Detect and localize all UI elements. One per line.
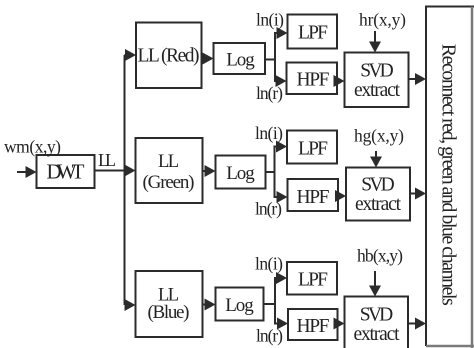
wire hb down <box>374 271 376 287</box>
svg-text:extract: extract <box>354 80 401 101</box>
svg-text:LL (Red): LL (Red) <box>138 46 200 67</box>
arrowhead into SVD3 from HPF3 <box>334 318 345 330</box>
wire split3 down to HPF <box>275 278 278 324</box>
wire LL (Red) to Log <box>202 58 205 60</box>
arrowhead into Log2 <box>205 165 216 177</box>
wire SVD1 to reconnect <box>409 78 417 80</box>
wire HPF3 to SVD <box>335 323 338 325</box>
svg-text:LPF: LPF <box>298 139 328 160</box>
wire branch to LL (Blue) <box>125 304 127 306</box>
svg-text:ln(r): ln(r) <box>256 326 283 346</box>
svg-text:HPF: HPF <box>297 70 330 91</box>
svg-text:ln(i): ln(i) <box>255 254 283 274</box>
wire Log1 to split <box>265 33 278 60</box>
box LPF row2 <box>287 131 337 164</box>
svg-text:extract: extract <box>354 324 401 345</box>
arrowhead SVD1 into reconnect <box>415 73 426 85</box>
box HPF row1 <box>287 63 338 95</box>
svg-text:LL: LL <box>158 152 179 172</box>
wire Log3 to split <box>264 278 278 304</box>
wire DWT to branch and LL (Green) <box>95 170 126 172</box>
box LL (Green) <box>136 138 203 203</box>
arrowhead SVD3 into reconnect <box>415 318 426 330</box>
arrowhead hg into SVD2 top <box>370 157 382 168</box>
box DWT <box>37 155 95 188</box>
arrowhead into SVD1 from HPF1 <box>334 75 345 87</box>
wire input to DWT <box>17 171 27 173</box>
arrowhead into HPF3 <box>277 318 288 330</box>
box LPF row3 <box>287 262 337 295</box>
svg-text:ln(r): ln(r) <box>255 199 282 219</box>
arrowhead into LL (Green) <box>125 165 136 177</box>
box Reconnect channels: bottom edge (gray, to image edge) <box>426 345 474 348</box>
arrowhead into HPF2 <box>277 191 288 203</box>
wire branch to LL (Red) <box>125 54 127 56</box>
box LL (Blue) <box>136 271 203 337</box>
box HPF row3 <box>288 309 338 340</box>
arrowhead hr into SVD1 top <box>369 42 381 53</box>
arrowhead into LPF2 <box>276 141 287 153</box>
svg-text:hb(x,y): hb(x,y) <box>357 246 403 266</box>
arrowhead into LPF3 <box>276 272 287 284</box>
svg-text:HPF: HPF <box>297 316 330 337</box>
arrowhead into Log3 <box>205 299 216 311</box>
wire split1 down to HPF <box>275 33 277 81</box>
wire HPF1 to SVD <box>335 80 337 82</box>
svg-text:extract: extract <box>355 194 402 215</box>
box Log row2 <box>216 156 266 189</box>
svg-text:SVD: SVD <box>360 61 394 82</box>
arrowhead SVD2 into reconnect <box>415 188 426 200</box>
svg-text:(Blue): (Blue) <box>148 302 190 323</box>
box Log row1 <box>214 43 266 74</box>
box Reconnect channels: right edge (gray, at image edge) <box>471 7 474 348</box>
wire split2 down to HPF <box>275 147 278 198</box>
svg-text:Log: Log <box>226 50 255 71</box>
svg-text:hr(x,y): hr(x,y) <box>359 10 406 30</box>
svg-text:Log: Log <box>226 163 255 184</box>
svg-text:SVD: SVD <box>360 305 394 326</box>
svg-text:DWT: DWT <box>47 160 85 184</box>
arrowhead hb into SVD3 top <box>369 286 381 297</box>
arrowhead into LPF1 <box>277 27 288 39</box>
box HPF row2 <box>288 179 339 211</box>
wire branch vertical <box>124 55 126 305</box>
wire hr down <box>374 31 376 43</box>
wire SVD2 to reconnect <box>410 193 416 195</box>
wire LL (Green) to Log <box>203 170 207 172</box>
arrowhead into LL (Blue) <box>125 299 136 311</box>
arrowhead into LL (Red) <box>125 49 136 61</box>
svg-text:Log: Log <box>225 295 254 316</box>
arrowhead into SVD2 from HPF2 <box>335 190 346 202</box>
svg-text:LPF: LPF <box>298 270 328 291</box>
svg-text:ln(i): ln(i) <box>255 123 283 143</box>
arrowhead into DWT <box>26 166 37 178</box>
arrowhead into Log1 <box>203 53 214 65</box>
box Log row3 <box>216 288 264 321</box>
box SVD extract row1 <box>345 53 409 108</box>
svg-text:ln(i): ln(i) <box>256 10 284 30</box>
arrowhead into HPF1 <box>276 75 287 87</box>
wire LL (Blue) to Log <box>203 304 207 306</box>
box LPF row1 <box>288 15 338 49</box>
box SVD extract row2 <box>346 168 410 221</box>
wire HPF2 to SVD <box>336 195 338 197</box>
box Reconnect channels: top and left edges <box>426 7 474 347</box>
box SVD extract row3 (bottom cut off) <box>345 297 409 348</box>
svg-text:SVD: SVD <box>361 175 395 196</box>
svg-text:LPF: LPF <box>298 23 328 44</box>
wire Log2 to split <box>266 147 278 173</box>
wire SVD3 to reconnect <box>408 323 416 325</box>
svg-text:(Green): (Green) <box>143 172 195 193</box>
svg-text:LL: LL <box>98 150 116 170</box>
wire hg down <box>375 151 377 158</box>
svg-text:hg(x,y): hg(x,y) <box>354 126 404 146</box>
svg-text:Reconnect red, green and blue: Reconnect red, green and blue channels <box>438 44 460 306</box>
svg-text:HPF: HPF <box>297 187 330 208</box>
box LL (Red) <box>136 23 202 89</box>
svg-text:wm(x,y): wm(x,y) <box>4 137 61 157</box>
svg-text:ln(r): ln(r) <box>256 83 283 103</box>
